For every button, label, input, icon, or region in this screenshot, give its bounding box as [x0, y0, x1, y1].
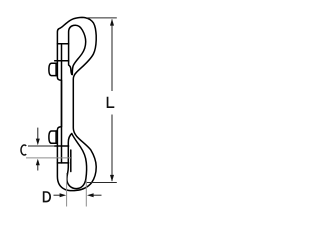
C dimension up arrowhead	[36, 159, 40, 166]
label D	[43, 191, 51, 202]
bolt channel edge (runs full length)	[61, 44, 63, 163]
C dimension down arrowhead	[36, 139, 40, 146]
D dimension right-pointing arrowhead	[60, 193, 67, 197]
bottom thumb stud face edge	[55, 131, 57, 143]
bottom bolt tip edge	[70, 150, 72, 172]
D dimension left-pointing arrow stem	[93, 194, 102, 196]
body left edge below top stud, shaft left edge	[57, 61, 61, 146]
label C	[21, 145, 26, 155]
top hook inner opening (eye hole)	[69, 25, 86, 74]
L dimension bottom extension line	[87, 182, 117, 184]
top bolt joint tick	[57, 43, 68, 45]
C dimension up arrow stem	[37, 164, 39, 171]
D dimension right-pointing arrow stem	[54, 194, 61, 196]
C dimension down arrow stem	[37, 128, 39, 140]
L dimension top extension line	[87, 17, 117, 19]
L dimension arrowhead down	[110, 175, 114, 182]
D dimension left-pointing arrowhead	[87, 193, 94, 197]
L dimension line upper segment	[111, 20, 113, 92]
D dimension right extension line	[85, 180, 87, 207]
L dimension line lower segment	[111, 115, 113, 182]
top step edge	[55, 60, 69, 62]
top thumb stud face edge	[55, 63, 57, 75]
bottom thumb stud	[49, 131, 57, 143]
label L	[107, 97, 115, 108]
snap body outer contour (top hook, shaft right edge, bottom hook)	[57, 17, 96, 190]
bottom bolt joint tick	[57, 162, 68, 164]
C dimension upper line	[28, 145, 54, 147]
L dimension arrowhead up	[110, 19, 114, 26]
bottom hook inner opening (eye hole)	[67, 134, 87, 189]
C dimension lower line	[26, 157, 71, 159]
D dimension left extension line	[66, 173, 68, 207]
bottom step edge	[55, 145, 69, 147]
top thumb stud	[49, 63, 57, 75]
